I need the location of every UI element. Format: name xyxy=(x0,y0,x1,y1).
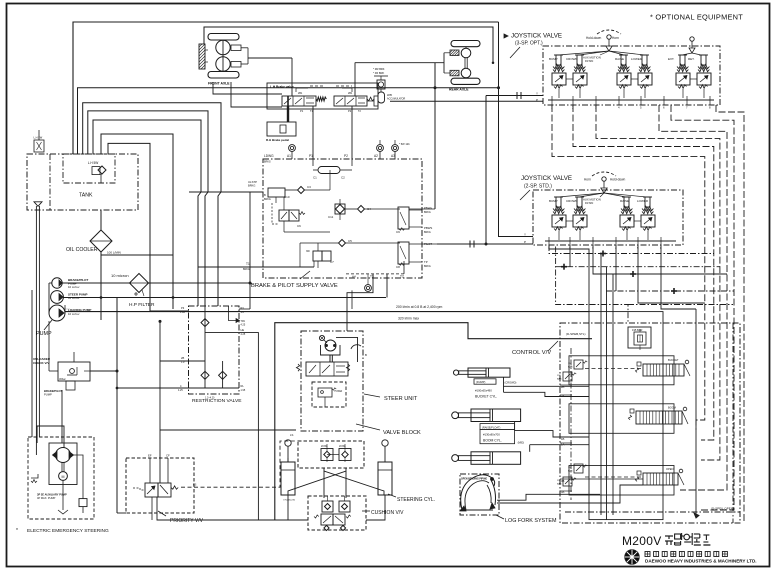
svg-text:FRONT AXLE: FRONT AXLE xyxy=(208,82,230,86)
svg-text:JOYSTICK VALVE: JOYSTICK VALVE xyxy=(511,33,562,40)
svg-text:TP: TP xyxy=(424,260,428,264)
svg-text:3B: 3B xyxy=(561,479,565,483)
svg-text:BUCKET: BUCKET xyxy=(668,358,679,362)
svg-text:L.H 5W: L.H 5W xyxy=(88,161,99,165)
svg-text:FR MN: FR MN xyxy=(585,59,593,63)
svg-text:200 l/min at 0.8 B at 2,400 r: 200 l/min at 0.8 B at 2,400 rpm xyxy=(396,305,443,309)
svg-text:30bar: 30bar xyxy=(59,377,66,381)
svg-text:L.H 5W: L.H 5W xyxy=(34,136,43,140)
svg-text:RAISE: RAISE xyxy=(620,199,629,203)
svg-text:ELECTRIC EMERGENCY STEERING: ELECTRIC EMERGENCY STEERING xyxy=(27,528,109,534)
svg-text:10 cc/rev: 10 cc/rev xyxy=(68,312,80,316)
svg-text:LS: LS xyxy=(193,483,197,487)
svg-text:AUX MOTION: AUX MOTION xyxy=(583,198,601,202)
svg-text:OIL COOLER: OIL COOLER xyxy=(66,247,98,253)
svg-text:2B: 2B xyxy=(561,385,565,389)
svg-text:3P 2E AUXILIARY PUMP: 3P 2E AUXILIARY PUMP xyxy=(37,493,67,497)
svg-text:(2-SP. STD.): (2-SP. STD.) xyxy=(524,184,552,190)
svg-text:C9: C9 xyxy=(396,230,400,234)
svg-text:P1: P1 xyxy=(300,109,304,113)
svg-text:RET.: RET. xyxy=(688,57,695,61)
svg-text:CONTROL V/V: CONTROL V/V xyxy=(512,350,551,356)
svg-text:91 cc/rev: 91 cc/rev xyxy=(68,296,80,300)
svg-text:PBWS: PBWS xyxy=(424,226,432,230)
svg-text:* RR BRK: * RR BRK xyxy=(373,67,385,71)
svg-text:C11: C11 xyxy=(328,215,334,219)
svg-text:C7: C7 xyxy=(330,260,334,264)
svg-text:Y: Y xyxy=(524,233,526,237)
svg-text:B: B xyxy=(365,353,367,357)
svg-text:BRKG: BRKG xyxy=(424,231,431,234)
svg-text:FR MN: FR MN xyxy=(585,201,593,205)
svg-text:(D-SPEIL OPEN): (D-SPEIL OPEN) xyxy=(711,507,734,511)
svg-text:320 l/min max: 320 l/min max xyxy=(398,316,419,320)
svg-text:ULSTP: ULSTP xyxy=(248,180,257,184)
svg-text:PUMP: PUMP xyxy=(44,392,52,396)
svg-text:H.P FILTER: H.P FILTER xyxy=(129,302,155,308)
svg-text:PRIORITY V/V: PRIORITY V/V xyxy=(170,518,204,524)
svg-text:BRKG: BRKG xyxy=(264,198,271,201)
svg-text:L.H Brake valve: L.H Brake valve xyxy=(270,85,294,89)
svg-text:BRAKE & PILOT SUPPLY VALVE: BRAKE & PILOT SUPPLY VALVE xyxy=(251,283,338,289)
svg-text:(3-SP. OPT.): (3-SP. OPT.) xyxy=(515,41,543,47)
svg-text:(DUMP): (DUMP) xyxy=(476,380,486,384)
svg-text:VALVE BLOCK: VALVE BLOCK xyxy=(383,430,421,436)
svg-text:A1: A1 xyxy=(287,154,291,158)
svg-text:(D-SPEB,STL): (D-SPEB,STL) xyxy=(566,332,586,336)
svg-text:CHECK V/V: CHECK V/V xyxy=(33,361,49,365)
svg-text:CF: CF xyxy=(166,454,170,458)
svg-text:4P MAX. PUMP: 4P MAX. PUMP xyxy=(37,496,56,500)
svg-text:Horn: Horn xyxy=(584,178,591,182)
svg-text:DAEWOO HEAVY INDUSTRIES &: DAEWOO HEAVY INDUSTRIES & MACHINERY LTD. xyxy=(645,559,757,564)
svg-text:C8: C8 xyxy=(396,265,400,269)
svg-text:4.25: 4.25 xyxy=(241,333,246,336)
svg-text:RAISE: RAISE xyxy=(615,57,624,61)
svg-text:(MID): (MID) xyxy=(518,441,525,445)
svg-text:(CROWD): (CROWD) xyxy=(505,381,517,385)
svg-text:M: M xyxy=(62,475,65,479)
svg-text:JOYSTICK VALVE: JOYSTICK VALVE xyxy=(521,175,572,182)
svg-text:AUX MOTION: AUX MOTION xyxy=(583,56,601,60)
svg-text:P1: P1 xyxy=(309,154,313,158)
svg-text:C10: C10 xyxy=(284,195,290,199)
svg-text:RESTRICTION VALVE: RESTRICTION VALVE xyxy=(192,398,242,404)
svg-text:W/B: W/B xyxy=(387,93,392,97)
svg-text:10 cc/rev: 10 cc/rev xyxy=(68,285,80,289)
svg-text:STEER UNIT: STEER UNIT xyxy=(384,396,418,402)
svg-text:BRKG: BRKG xyxy=(424,265,431,268)
svg-text:(RAISE/FLOAT): (RAISE/FLOAT) xyxy=(482,425,501,429)
svg-text:#130x80x700: #130x80x700 xyxy=(483,433,500,437)
svg-text:P3: P3 xyxy=(181,306,185,310)
svg-text:LDWG: LDWG xyxy=(264,154,274,158)
svg-text:2B1: 2B1 xyxy=(348,92,353,95)
svg-text:LOWER: LOWER xyxy=(637,199,649,203)
svg-text:T1: T1 xyxy=(246,262,250,266)
svg-text:BRKG: BRKG xyxy=(243,268,250,271)
svg-text:T2: T2 xyxy=(400,275,404,279)
svg-text:75 BAR: 75 BAR xyxy=(334,390,343,393)
svg-text:2A: 2A xyxy=(561,394,565,398)
svg-text:B: B xyxy=(264,193,266,197)
svg-text:BUCKET CYL.: BUCKET CYL. xyxy=(475,395,497,399)
svg-text:P: P xyxy=(536,98,538,102)
svg-text:C2: C2 xyxy=(341,176,345,180)
svg-text:#75x45x230: #75x45x230 xyxy=(283,500,296,502)
svg-text:2B1: 2B1 xyxy=(298,92,303,95)
svg-text:LS: LS xyxy=(290,433,294,437)
svg-text:Horn: Horn xyxy=(612,36,619,40)
svg-text:Hold-down: Hold-down xyxy=(610,178,625,182)
svg-text:ACCUMULATOR: ACCUMULATOR xyxy=(387,98,406,101)
svg-text:4.25: 4.25 xyxy=(178,389,183,392)
svg-text:BAR: BAR xyxy=(557,377,562,380)
svg-text:P2: P2 xyxy=(344,154,348,158)
svg-text:C3: C3 xyxy=(307,185,311,189)
svg-text:A4: A4 xyxy=(352,275,356,279)
svg-text:*: * xyxy=(16,528,18,534)
svg-text:BOOM: BOOM xyxy=(668,406,676,410)
svg-text:LOWER: LOWER xyxy=(631,57,643,61)
svg-text:OPEN: OPEN xyxy=(666,467,673,471)
svg-text:HE: HE xyxy=(241,328,245,332)
svg-text:P2: P2 xyxy=(348,109,352,113)
svg-text:BRKG: BRKG xyxy=(264,161,271,164)
svg-text:REAR AXLE: REAR AXLE xyxy=(449,88,469,92)
svg-text:3W: 3W xyxy=(306,250,310,253)
svg-text:C6: C6 xyxy=(297,224,301,228)
svg-text:BOOM CYL.: BOOM CYL. xyxy=(483,439,502,443)
svg-text:P: P xyxy=(524,240,526,244)
svg-text:M200V: M200V xyxy=(622,534,662,548)
svg-text:EXT.: EXT. xyxy=(668,57,675,61)
svg-text:#100x65x490: #100x65x490 xyxy=(475,389,492,393)
svg-text:EF: EF xyxy=(148,454,152,458)
svg-text:R.H Brake pedal: R.H Brake pedal xyxy=(266,138,289,142)
svg-text:3A: 3A xyxy=(561,490,565,494)
svg-text:TANK: TANK xyxy=(79,193,93,199)
svg-text:Y: Y xyxy=(536,92,538,96)
svg-text:BAR: BAR xyxy=(568,365,573,368)
svg-text:C1: C1 xyxy=(313,176,317,180)
svg-text:BAR: BAR xyxy=(568,469,573,472)
svg-text:1.95: 1.95 xyxy=(241,389,246,392)
svg-text:* OPTIONAL EQUIPMENT: * OPTIONAL EQUIPMENT xyxy=(650,13,743,22)
svg-text:A2: A2 xyxy=(374,154,378,158)
svg-text:STEERING CYL.: STEERING CYL. xyxy=(397,497,435,503)
svg-text:BRKG: BRKG xyxy=(248,184,255,188)
svg-text:2B: 2B xyxy=(181,356,184,360)
svg-text:PUMP: PUMP xyxy=(36,331,52,337)
svg-text:10 micron: 10 micron xyxy=(111,273,129,278)
svg-text:OPEN BENDING PIPING: OPEN BENDING PIPING xyxy=(461,479,487,481)
svg-text:RL: RL xyxy=(241,384,245,388)
svg-text:BRAKE/PILOT: BRAKE/PILOT xyxy=(44,389,63,393)
svg-text:195 BAR: 195 BAR xyxy=(632,328,643,332)
svg-text:Hold-down: Hold-down xyxy=(586,36,601,40)
svg-text:BRKG: BRKG xyxy=(424,211,431,214)
svg-text:A3: A3 xyxy=(391,154,395,158)
svg-text:* FR BRK: * FR BRK xyxy=(373,71,385,75)
svg-text:CUSHION V/V: CUSHION V/V xyxy=(371,510,404,516)
svg-text:1B: 1B xyxy=(561,437,565,441)
svg-text:4.25: 4.25 xyxy=(241,324,246,327)
svg-text:C5: C5 xyxy=(348,239,352,243)
svg-text:LOG FORK SYSTEM: LOG FORK SYSTEM xyxy=(505,518,557,524)
svg-text:* 5W 12b: * 5W 12b xyxy=(399,142,410,146)
svg-text:100 L/MIN: 100 L/MIN xyxy=(107,251,121,255)
